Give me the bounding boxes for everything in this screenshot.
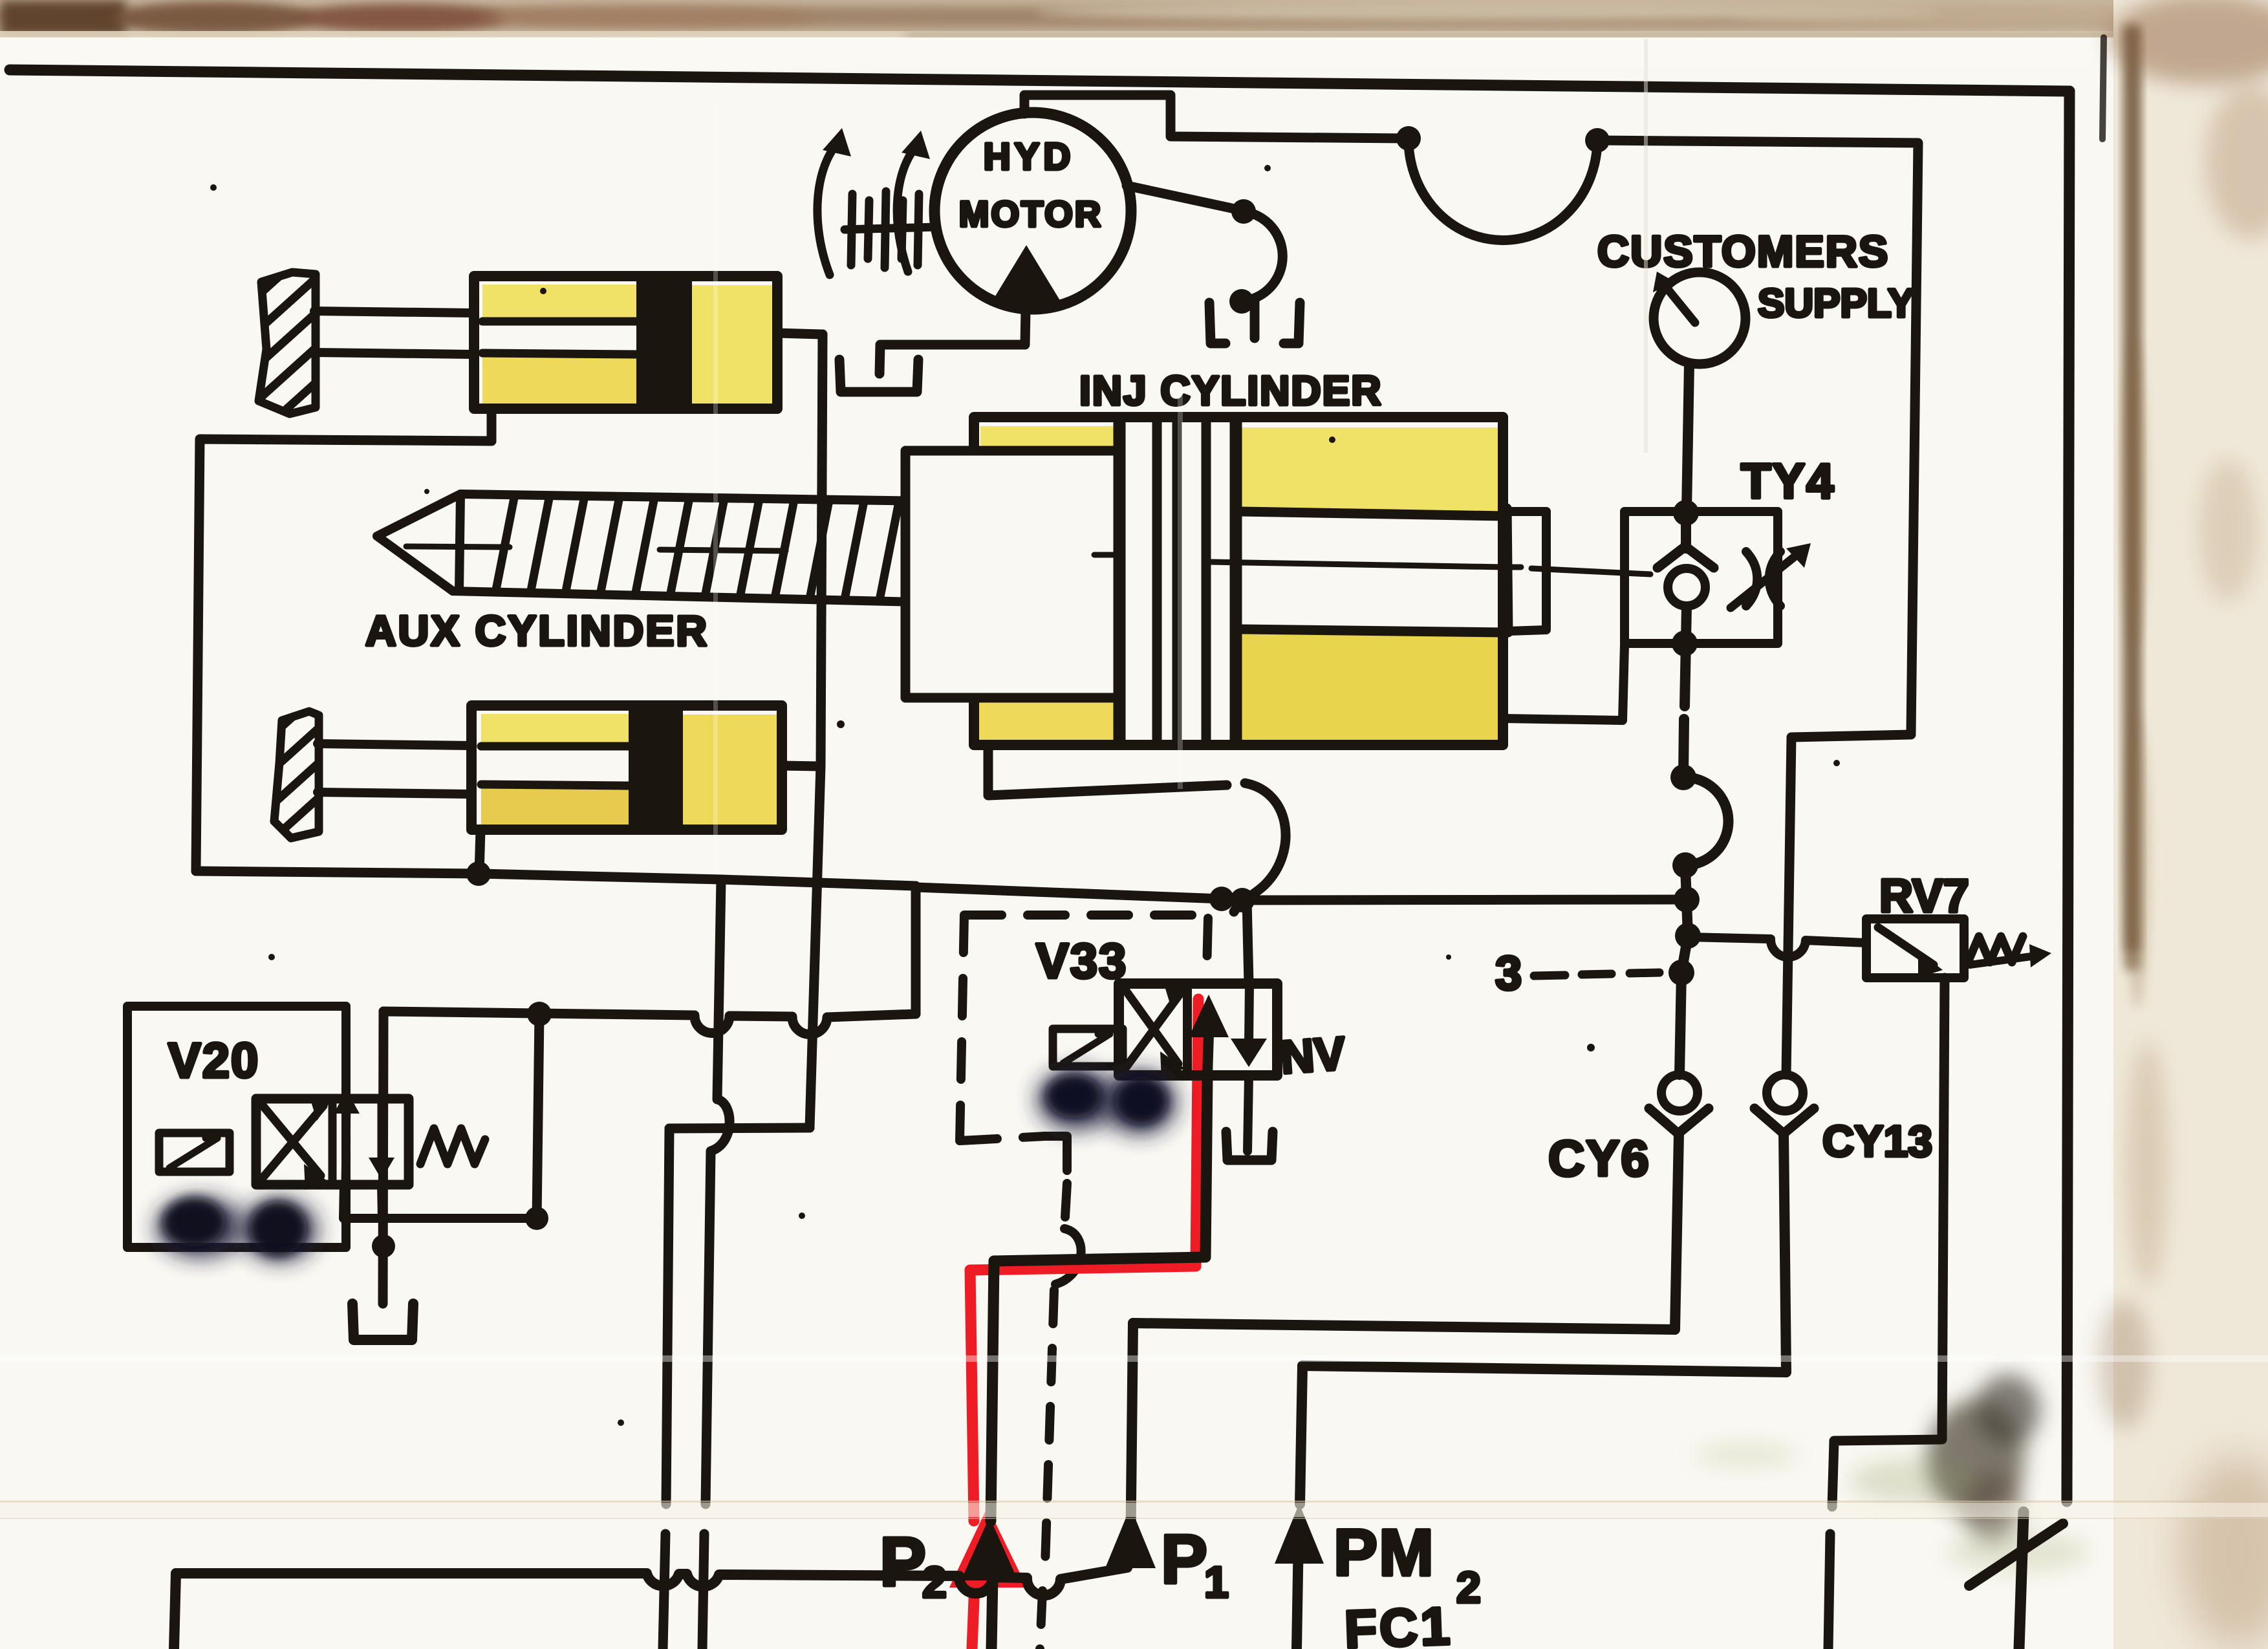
node: tank line crossing V20 box bottom — [372, 1234, 395, 1258]
valve V20 through arrows (parallel cell) — [334, 1090, 394, 1183]
wire: P2 black supply line vertical — [991, 1261, 994, 1649]
tank symbol below V33 — [1226, 1132, 1273, 1160]
inj rod end block — [1508, 512, 1546, 631]
label NV — [1279, 1028, 1347, 1084]
label TY4 — [1741, 454, 1835, 509]
wire: top rail to right side and down (inner border) — [1597, 140, 1918, 733]
wire: CY13 down to PM2 rail — [1302, 1134, 1786, 1372]
node: riser pilot dashed junction — [1669, 960, 1694, 986]
wire: V20 valve ports to tank line — [343, 1185, 537, 1218]
svg-text:NV: NV — [1279, 1028, 1347, 1084]
inj cylinder piston seal stack — [1119, 419, 1236, 744]
wire: bottom collector left drop — [174, 1573, 176, 1649]
node: lower cylinder port junction — [466, 861, 491, 886]
V20 ink smudge — [155, 1196, 318, 1262]
screw body outline — [453, 494, 971, 603]
paper edge mark top right — [2102, 38, 2104, 139]
wire: dashed pilot line down with bridge — [1040, 1183, 1081, 1649]
P2 flow arrowhead — [961, 1517, 1018, 1580]
wire: P2 black line horizontal to V33 — [994, 1257, 1205, 1261]
wire: inj bottom port elbow — [988, 745, 1227, 795]
node: motor right port bottom — [1229, 289, 1254, 314]
aux cylinder upper: piston rod — [314, 311, 474, 354]
valve V20 crossed arrows (X cell) — [261, 1095, 331, 1190]
hyd motor direction triangle — [990, 245, 1063, 305]
wire: rail left end drop to V20 tank line — [383, 1011, 383, 1304]
wire: long middle rail (V33 feed to main riser) — [916, 887, 1687, 900]
V33 solenoid box — [1053, 1029, 1123, 1066]
label RV7 — [1879, 870, 1969, 922]
right paper edge band — [2113, 0, 2268, 1649]
svg-text:FC1: FC1 — [1343, 1597, 1453, 1649]
node: TY4 top — [1673, 500, 1699, 526]
svg-text:CUSTOMERS: CUSTOMERS — [1597, 227, 1889, 276]
wire: riser bridge arc — [1683, 777, 1729, 865]
wire: inner rail elbow left then down to CY13 — [1786, 735, 1911, 1075]
valve V33 down arrow — [1231, 984, 1267, 1067]
label SUPPLY — [1758, 281, 1914, 326]
centerline dash-dot — [1094, 555, 1650, 574]
svg-text:CY13: CY13 — [1822, 1117, 1932, 1166]
svg-text:2: 2 — [922, 1558, 947, 1607]
valve V33 up arrow (highlighted port) — [1189, 995, 1229, 1075]
label CY13 — [1822, 1117, 1932, 1166]
bottom-right dark stain blotch — [1927, 1400, 2024, 1516]
node: motor right port top — [1231, 199, 1256, 224]
svg-text:P: P — [1161, 1520, 1207, 1598]
svg-text:INJ CYLINDER: INJ CYLINDER — [1079, 367, 1383, 414]
P1 flow arrowhead — [1105, 1507, 1156, 1568]
border frame outer top line — [10, 70, 2069, 91]
node: top rail right of bridge — [1585, 128, 1610, 153]
V20 solenoid box — [159, 1133, 230, 1172]
node: riser RV7 branch junction — [1675, 923, 1701, 949]
top paper edge strip — [0, 0, 2268, 36]
aux cylinder lower: body — [471, 706, 782, 830]
wire: aux lower right port — [782, 766, 821, 766]
RV7 spring and vent arrow — [1968, 936, 2051, 967]
svg-text:V20: V20 — [168, 1033, 259, 1088]
tank symbol at motor right branch — [1209, 301, 1300, 343]
valve V33 crossed arrows (X cell) — [1125, 984, 1187, 1079]
svg-text:PM: PM — [1334, 1516, 1435, 1590]
node: riser mid rail junction — [1674, 887, 1700, 912]
label P1 — [1161, 1520, 1229, 1607]
label V20 — [168, 1033, 259, 1088]
wire: RV7 drain down and left and down — [1828, 978, 1945, 1649]
aux cylinder lower: anchor wall (hatched) — [274, 711, 319, 838]
wire: crossing loop (half-circle bridge) on top rail — [1409, 138, 1597, 240]
svg-text:RV7: RV7 — [1879, 870, 1969, 922]
wire: drop line no.2 left vertical to bottom — [663, 1128, 669, 1649]
coupling rotation arrow left — [817, 128, 851, 275]
wire: V33 down-arrow line to tank — [1247, 1075, 1249, 1151]
inj cylinder housing — [974, 417, 1503, 745]
wire: drop line no.1 with s-jog crossing — [702, 879, 729, 1649]
label CUSTOMERS — [1597, 227, 1889, 276]
wire: middle rail left drop to lower rail — [911, 887, 921, 1014]
aux cylinder upper: anchor wall (hatched) — [259, 272, 316, 414]
svg-text:P: P — [880, 1522, 926, 1600]
node: V20 port rail to riser — [525, 1207, 548, 1230]
vertical creases — [713, 97, 718, 873]
node: top rail left of bridge — [1396, 126, 1421, 151]
wire: main riser (gauge to CY6) — [1679, 364, 1689, 1075]
node: riser arc top — [1670, 764, 1696, 790]
inj rod end cap — [1507, 508, 1508, 632]
hand tick mark bottom right — [1969, 1524, 2063, 1586]
wire: half-circle bulge to lower tank stub — [1242, 211, 1282, 301]
wire: aux loop bottom rail to drop corner — [196, 871, 916, 886]
small ink speckles — [210, 165, 1840, 1426]
wire: motor right port diagonal — [1127, 186, 1244, 211]
V20 spring — [420, 1128, 485, 1164]
inj cylinder barrel (screw housing) — [905, 451, 1119, 698]
label HYD — [984, 136, 1074, 178]
wire: PM2 drop line — [1297, 1366, 1302, 1649]
svg-text:V33: V33 — [1036, 934, 1127, 989]
label FC1 — [1343, 1597, 1453, 1649]
node: lower rail to V20 riser — [527, 1002, 552, 1026]
check valve TY4 box — [1625, 512, 1778, 643]
aux cylinder upper: body — [474, 276, 777, 409]
pressure gauge (customers supply) — [1653, 272, 1745, 364]
V33 ink smudge — [1037, 1068, 1177, 1135]
wire: dashed pilot line corner below V33 — [1045, 1136, 1067, 1170]
wire: bottom collector rail with bridge dips — [176, 1323, 1133, 1595]
wire: aux upper right port — [777, 333, 823, 334]
svg-text:SUPPLY: SUPPLY — [1758, 281, 1914, 326]
svg-text:HYD: HYD — [984, 136, 1074, 178]
wire: horizontal rail no.2 (drop line pair) — [669, 1128, 810, 1128]
wire: V33 top port to middle rail — [1247, 900, 1249, 984]
PM2 flow arrowhead — [1275, 1503, 1324, 1564]
svg-text:1: 1 — [1204, 1558, 1229, 1607]
V20 enclosure box — [127, 1006, 346, 1247]
wire: P2 black line riser into V33 — [1205, 1075, 1207, 1257]
screw (auger) tip — [377, 494, 460, 591]
svg-text:CY6: CY6 — [1548, 1130, 1650, 1187]
wire: aux upper bottom port stub — [487, 409, 497, 441]
wire: right-side long drop line (upper cyl to lower manifold) — [810, 334, 823, 1128]
wire: TY4 left branch to inj rod side — [1504, 645, 1625, 720]
svg-text:MOTOR: MOTOR — [959, 193, 1103, 234]
horizontal crease mid-low — [0, 1355, 2268, 1362]
wire: P1 line to CY6 — [1133, 1134, 1679, 1330]
wire: motor bottom port to drain tank — [880, 310, 1026, 374]
label MOTOR — [959, 193, 1103, 234]
horizontal fold crease bottom — [0, 1503, 2268, 1517]
coupling shaft symbol left of motor — [845, 191, 937, 268]
label PM2 — [1334, 1516, 1481, 1612]
label P2 — [880, 1522, 947, 1607]
coupling rotation arrow right — [897, 131, 930, 272]
screw flight hatch lines — [496, 498, 968, 598]
check valve CY6 — [1649, 1075, 1709, 1134]
svg-text:2: 2 — [1456, 1563, 1481, 1612]
label AUX CYLINDER — [365, 607, 709, 654]
relief valve RV7 box — [1866, 919, 1964, 978]
label V33 — [1036, 934, 1127, 989]
red highlight line P2 path — [949, 999, 1198, 1649]
valve V20 body — [256, 1099, 409, 1185]
svg-text:TY4: TY4 — [1741, 454, 1835, 509]
label 3 with dashed pilot — [1495, 946, 1659, 1000]
node: TY4 bottom — [1672, 630, 1698, 656]
border frame outer right line — [2019, 91, 2069, 1649]
wire: V20 riser up to lower rail — [537, 1014, 539, 1218]
inj cylinder piston rod — [1241, 512, 1504, 632]
node: riser arc bottom — [1672, 852, 1698, 878]
screw centerline dashes — [406, 546, 786, 551]
check valve CY13 — [1755, 1075, 1814, 1134]
wire: RV7 branch line with bridge dip — [1688, 937, 1866, 957]
label INJ CYLINDER — [1079, 367, 1383, 414]
svg-text:3: 3 — [1495, 946, 1522, 1000]
tank symbol under motor bottom port — [839, 360, 918, 392]
wire: aux loop rectangle (left side) — [196, 439, 491, 871]
valve V33 body — [1119, 984, 1277, 1075]
hyd motor M1 circle — [934, 113, 1131, 309]
wire: HYD motor top port to inner top rail — [1024, 95, 1409, 138]
aux cylinder lower: piston rod — [318, 744, 471, 794]
label CY6 — [1548, 1130, 1650, 1187]
wire: aux lower bottom port — [479, 830, 481, 874]
tank symbol below V20 — [352, 1304, 413, 1340]
TY4 orifice symbol with arrow — [1731, 543, 1811, 608]
V33 dashed enclosure — [960, 915, 1208, 1141]
svg-text:AUX CYLINDER: AUX CYLINDER — [365, 607, 709, 654]
node: hook right — [1230, 888, 1255, 912]
check valve TY4 poppet — [1658, 546, 1714, 606]
node: hook left — [1209, 887, 1234, 911]
wire: hook loop from inj bottom line — [1234, 783, 1286, 912]
wire: lower distribution rail with two bridge dips — [383, 1011, 916, 1034]
